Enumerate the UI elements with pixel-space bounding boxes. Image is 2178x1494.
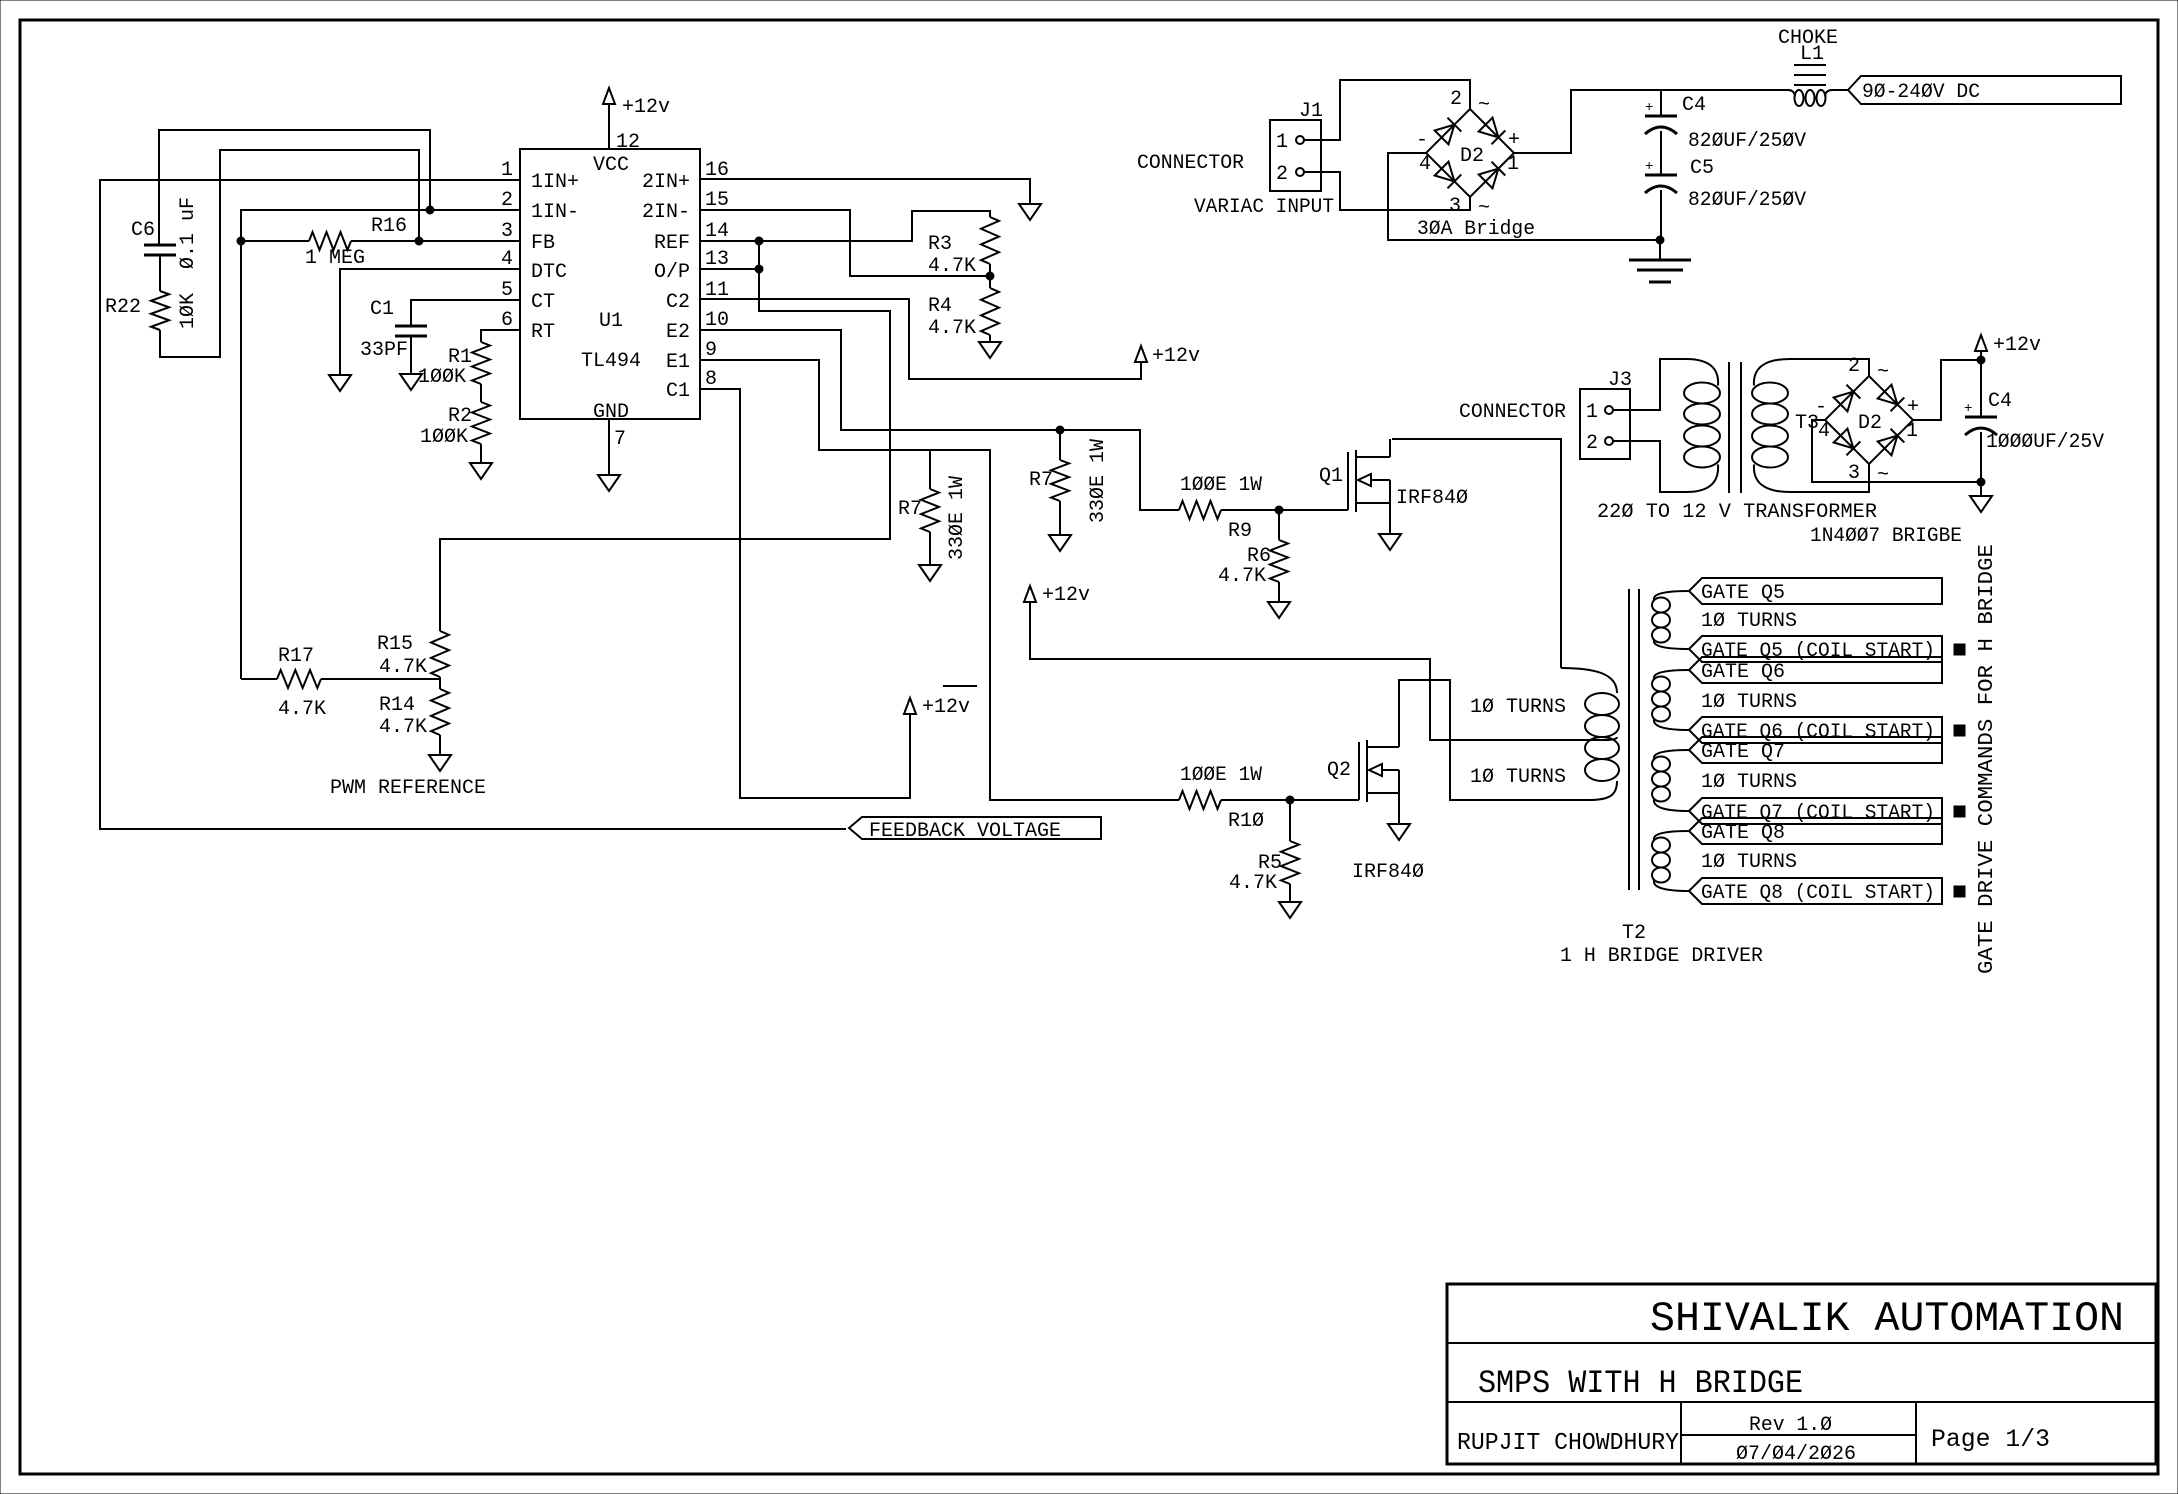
svg-text:1ØK: 1ØK	[177, 293, 200, 329]
svg-text:1ØØE 1W: 1ØØE 1W	[1180, 764, 1262, 787]
svg-text:GND: GND	[593, 401, 629, 424]
svg-text:82ØUF/25ØV: 82ØUF/25ØV	[1688, 130, 1806, 153]
svg-text:REF: REF	[654, 232, 690, 255]
svg-text:GATE Q8 (COIL START): GATE Q8 (COIL START)	[1701, 882, 1935, 905]
svg-text:1ØØØUF/25V: 1ØØØUF/25V	[1986, 431, 2104, 454]
svg-text:C1: C1	[666, 380, 690, 403]
svg-text:1Ø TURNS: 1Ø TURNS	[1470, 696, 1566, 719]
svg-text:R22: R22	[105, 296, 141, 319]
transformer T3 primary	[1684, 359, 1720, 492]
transformer T2 secondary 4	[1652, 831, 1689, 891]
ground DTC	[329, 375, 351, 391]
wire pin8 C1	[700, 389, 910, 798]
title Page 1/3	[1931, 1425, 2050, 1454]
ground R5	[1279, 902, 1301, 918]
svg-text:D2: D2	[1460, 145, 1484, 168]
wire bridge minus to gnd rail	[1388, 153, 1656, 240]
capacitor C5 820UF	[1645, 157, 1806, 240]
ground R6	[1268, 602, 1290, 618]
bridge rectifier D2 1N4007	[1815, 355, 1919, 487]
label 10 TURNS 4	[1701, 851, 1797, 874]
node R7b junction	[1056, 426, 1064, 434]
wire R14 to gnd	[439, 735, 441, 755]
svg-text:IRF84Ø: IRF84Ø	[1352, 861, 1424, 884]
ground Q2 source	[1388, 824, 1410, 840]
svg-text:U1: U1	[599, 310, 623, 333]
svg-text:R7: R7	[898, 498, 922, 521]
svg-text:R9: R9	[1228, 520, 1252, 543]
flag FEEDBACK VOLTAGE	[849, 817, 1101, 843]
svg-text:1ØØE 1W: 1ØØE 1W	[1180, 474, 1262, 497]
title block frame	[1447, 1284, 2156, 1464]
svg-text:3: 3	[1449, 195, 1461, 218]
wire J3 pin2 to T3	[1613, 441, 1686, 492]
svg-text:R3: R3	[928, 233, 952, 256]
wire T3 sec top to bridge	[1790, 359, 1869, 376]
node FB left junction	[237, 237, 245, 245]
title Rev 1.0	[1749, 1414, 1832, 1437]
capacitor C4 1000UF	[1964, 360, 2104, 482]
svg-text:R2: R2	[448, 405, 472, 428]
svg-text:E2: E2	[666, 321, 690, 344]
svg-text:E1: E1	[666, 351, 690, 374]
capacitor C4 820UF	[1645, 90, 1806, 174]
flag GATE Q6 (COIL START)	[1689, 717, 1942, 744]
svg-text:CONNECTOR: CONNECTOR	[1459, 401, 1566, 424]
label 1N4007 BRIGBE	[1810, 525, 1962, 548]
svg-text:R15: R15	[377, 633, 413, 656]
node R7a junction	[929, 450, 931, 451]
flag GATE Q5 (COIL START)	[1689, 636, 1942, 663]
svg-text:FB: FB	[531, 232, 555, 255]
svg-text:C1: C1	[370, 298, 394, 321]
svg-text:2IN+: 2IN+	[642, 171, 690, 194]
svg-text:22Ø TO 12 V TRANSFORMER: 22Ø TO 12 V TRANSFORMER	[1597, 501, 1877, 524]
svg-text:1: 1	[1507, 153, 1519, 176]
svg-text:1ØØK: 1ØØK	[420, 426, 468, 449]
svg-text:GATE Q6: GATE Q6	[1701, 661, 1785, 684]
wire C6 branch top	[159, 130, 430, 245]
transistor Q1 IRF840	[1319, 439, 1468, 534]
svg-text:D2: D2	[1858, 412, 1882, 435]
svg-text:1Ø TURNS: 1Ø TURNS	[1701, 771, 1797, 794]
svg-text:4.7K: 4.7K	[928, 255, 976, 278]
svg-text:Page 1/3: Page 1/3	[1931, 1425, 2050, 1454]
wire REF-O/P tie	[758, 241, 760, 269]
svg-text:2: 2	[1848, 355, 1860, 378]
svg-text:FEEDBACK VOLTAGE: FEEDBACK VOLTAGE	[869, 820, 1061, 843]
wire pin10 E2	[700, 330, 1179, 510]
svg-text:1: 1	[1276, 131, 1288, 154]
svg-text:5: 5	[501, 279, 513, 302]
svg-text:CT: CT	[531, 291, 555, 314]
svg-text:TL494: TL494	[581, 350, 641, 373]
svg-text:1Ø TURNS: 1Ø TURNS	[1701, 691, 1797, 714]
resistor R4 4.7K	[928, 288, 999, 340]
capacitor C1 33PF	[360, 298, 427, 374]
resistor R15 4.7K	[377, 631, 449, 679]
svg-text:15: 15	[705, 189, 729, 212]
wire O/P to divider	[440, 269, 890, 631]
ground Q1 source	[1379, 534, 1401, 550]
power +12v T3 rail	[1975, 334, 2041, 357]
svg-text:GATE DRIVE COMMANDS FOR H BRID: GATE DRIVE COMMANDS FOR H BRIDGE	[1976, 544, 1999, 974]
resistor R2 100K	[420, 402, 490, 449]
ground R4	[979, 342, 1001, 358]
IC U1 TL494 body	[520, 149, 700, 424]
wire +12v to T2 tap	[1030, 602, 1605, 740]
resistor R9 100E 1W	[1179, 474, 1348, 543]
node R10-R5 junction	[1286, 796, 1294, 804]
wire R4 to gnd	[989, 335, 991, 342]
svg-text:13: 13	[705, 248, 729, 271]
flag GATE Q8 (COIL START)	[1689, 878, 1942, 905]
svg-text:VARIAC INPUT: VARIAC INPUT	[1194, 196, 1334, 219]
resistor R3 4.7K	[928, 217, 999, 278]
node coil start dot 2	[1954, 725, 1965, 736]
svg-text:SMPS WITH H BRIDGE: SMPS WITH H BRIDGE	[1478, 1365, 1803, 1402]
svg-text:+12v: +12v	[622, 96, 670, 119]
label VARIAC INPUT	[1194, 196, 1334, 219]
svg-text:1ØØK: 1ØØK	[418, 366, 466, 389]
ground GND pin7	[598, 419, 620, 491]
ground pin16	[1019, 204, 1041, 220]
bridge rectifier D2 30A	[1416, 88, 1520, 220]
label CONNECTOR J3	[1459, 401, 1566, 424]
wire pin6 RT	[481, 330, 520, 342]
svg-text:1 MEG: 1 MEG	[305, 247, 365, 270]
flag GATE Q7 (COIL START)	[1689, 798, 1942, 825]
title SHIVALIK AUTOMATION	[1650, 1295, 2124, 1343]
wire J1 pin2 to bridge	[1304, 172, 1470, 210]
svg-text:9Ø-24ØV DC: 9Ø-24ØV DC	[1862, 81, 1980, 104]
label T2	[1560, 922, 1763, 968]
svg-text:J3: J3	[1608, 369, 1632, 392]
svg-text:R7: R7	[1029, 469, 1053, 492]
wire FB to R17	[240, 241, 242, 679]
svg-text:R4: R4	[928, 295, 952, 318]
wire pin2 1IN-	[241, 210, 520, 239]
svg-text:C5: C5	[1690, 157, 1714, 180]
node C4 1000UF bottom junction	[1977, 478, 1985, 486]
svg-text:RT: RT	[531, 321, 555, 344]
label T3	[1795, 412, 1819, 435]
inductor L1 choke	[1778, 27, 1838, 106]
wire T3 sec bottom to bridge	[1790, 464, 1869, 492]
wire junction to earth	[1659, 240, 1661, 260]
flag 90-240V DC	[1848, 76, 2121, 104]
label CONNECTOR J1	[1137, 152, 1244, 175]
svg-text:4.7K: 4.7K	[379, 716, 427, 739]
svg-text:IRF84Ø: IRF84Ø	[1396, 487, 1468, 510]
svg-text:33PF: 33PF	[360, 339, 408, 362]
wire J3 pin1 to T3	[1613, 359, 1686, 410]
flag GATE Q5	[1689, 578, 1942, 605]
resistor R14 4.7K	[379, 689, 449, 739]
label 10 TURNS primary upper	[1470, 696, 1566, 719]
wire Q1 drain to T2	[1392, 439, 1561, 668]
label 30A Bridge	[1417, 218, 1535, 241]
svg-text:T2: T2	[1622, 922, 1646, 945]
ground C1	[400, 374, 422, 390]
wire R2 to gnd	[480, 444, 482, 463]
wire FB pin3	[419, 240, 520, 242]
svg-text:2: 2	[1450, 88, 1462, 111]
title SMPS WITH H BRIDGE	[1478, 1365, 1803, 1402]
svg-text:1: 1	[1906, 420, 1918, 443]
svg-text:O/P: O/P	[654, 261, 690, 284]
wire R22 to FB node	[160, 150, 419, 357]
svg-text:SHIVALIK AUTOMATION: SHIVALIK AUTOMATION	[1650, 1295, 2124, 1343]
resistor R5 4.7K	[1229, 800, 1299, 902]
pin numbers U1	[501, 131, 729, 451]
svg-text:RUPJIT CHOWDHURY: RUPJIT CHOWDHURY	[1457, 1430, 1679, 1457]
svg-text:4: 4	[501, 248, 513, 271]
node coil start dot 4	[1954, 886, 1965, 897]
wire pin1 1IN+ to feedback	[100, 180, 846, 829]
svg-text:VCC: VCC	[593, 154, 629, 177]
transformer T2 secondary 2	[1652, 670, 1689, 730]
transformer T3 secondary	[1752, 359, 1790, 492]
svg-text:4: 4	[1419, 153, 1431, 176]
svg-text:1N4ØØ7 BRIGBE: 1N4ØØ7 BRIGBE	[1810, 525, 1962, 548]
svg-text:7: 7	[614, 428, 626, 451]
svg-text:-: -	[1416, 129, 1428, 152]
svg-text:8: 8	[705, 368, 717, 391]
svg-text:CONNECTOR: CONNECTOR	[1137, 152, 1244, 175]
node pin2-C6 junction	[426, 206, 434, 214]
svg-text:+: +	[1645, 100, 1653, 116]
power +12v C2	[1135, 345, 1200, 368]
wire J1 pin1 to bridge	[1304, 80, 1470, 140]
node coil start dot 3	[1954, 806, 1965, 817]
svg-text:C4: C4	[1682, 94, 1706, 117]
ground PWM divider	[429, 755, 451, 771]
wire pin4 DTC	[340, 269, 520, 375]
resistor R22	[105, 291, 200, 330]
resistor R10 100E 1W	[1179, 764, 1359, 833]
svg-text:GATE Q8: GATE Q8	[1701, 822, 1785, 845]
flag GATE Q6	[1689, 657, 1942, 684]
svg-text:+12v: +12v	[1152, 345, 1200, 368]
ground R7 upper	[1049, 535, 1071, 551]
ground R7 left	[919, 565, 941, 581]
resistor R17 4.7K	[241, 645, 440, 721]
svg-text:33ØE 1W: 33ØE 1W	[946, 476, 969, 560]
ground bridge2	[1970, 482, 1992, 512]
capacitor C6	[131, 197, 200, 291]
svg-text:4.7K: 4.7K	[379, 656, 427, 679]
wire pin13 O/P	[700, 268, 759, 270]
resistor R1 100K	[418, 342, 490, 389]
svg-text:1 H BRIDGE DRIVER: 1 H BRIDGE DRIVER	[1560, 945, 1763, 968]
transformer T3 core	[1729, 362, 1741, 493]
wire pin9 E1	[700, 360, 1179, 800]
node R3 R4 junction	[986, 264, 994, 288]
flag GATE Q8	[1689, 818, 1942, 845]
node C4C5 bottom junction	[1656, 236, 1664, 244]
svg-text:+: +	[1907, 396, 1919, 419]
label transformer T3 caption	[1597, 501, 1877, 524]
svg-text:82ØUF/25ØV: 82ØUF/25ØV	[1688, 189, 1806, 212]
svg-text:GATE Q5: GATE Q5	[1701, 582, 1785, 605]
node R9-R6 junction	[1275, 506, 1283, 514]
svg-text:+: +	[1964, 401, 1972, 417]
flag GATE Q7	[1689, 737, 1942, 764]
svg-text:C2: C2	[666, 291, 690, 314]
svg-text:~: ~	[1877, 361, 1889, 384]
svg-text:R1Ø: R1Ø	[1228, 810, 1264, 833]
svg-text:-: -	[1815, 396, 1827, 419]
svg-text:GATE Q5 (COIL START): GATE Q5 (COIL START)	[1701, 640, 1935, 663]
connector J3	[1580, 369, 1632, 459]
wire L1 to flag	[1832, 89, 1848, 91]
wire pin11 C2	[700, 299, 1141, 379]
svg-text:1Ø TURNS: 1Ø TURNS	[1701, 851, 1797, 874]
svg-text:1: 1	[501, 159, 513, 182]
resistor R16 1 MEG	[241, 215, 419, 270]
svg-text:6: 6	[501, 309, 513, 332]
svg-text:Ø7/Ø4/2Ø26: Ø7/Ø4/2Ø26	[1736, 1443, 1856, 1466]
label 10 TURNS 3	[1701, 771, 1797, 794]
transistor Q2 IRF840	[1327, 740, 1424, 884]
svg-text:1IN-: 1IN-	[531, 201, 579, 224]
power +12v VCC pin12	[603, 88, 670, 149]
label 10 TURNS 1	[1701, 610, 1797, 633]
transformer T2 secondary 3	[1652, 750, 1689, 811]
svg-text:4.7K: 4.7K	[1229, 872, 1277, 895]
svg-text:Rev 1.Ø: Rev 1.Ø	[1749, 1414, 1832, 1437]
wire Q2 drain to T2	[1399, 680, 1460, 800]
svg-text:Q2: Q2	[1327, 759, 1351, 782]
ground earth 30A bridge	[1629, 260, 1691, 282]
svg-text:1Ø TURNS: 1Ø TURNS	[1470, 766, 1566, 789]
svg-text:4.7K: 4.7K	[928, 317, 976, 340]
svg-text:+12v: +12v	[1993, 334, 2041, 357]
svg-text:R16: R16	[371, 215, 407, 238]
svg-text:+: +	[1508, 129, 1520, 152]
svg-text:J1: J1	[1299, 100, 1323, 123]
svg-text:2: 2	[501, 189, 513, 212]
svg-text:2: 2	[1586, 432, 1598, 455]
wire pin16 2IN+	[700, 179, 1030, 204]
node O/P junction	[755, 265, 763, 273]
svg-text:33ØE 1W: 33ØE 1W	[1087, 439, 1110, 523]
svg-text:C4: C4	[1988, 390, 2012, 413]
svg-text:Q1: Q1	[1319, 465, 1343, 488]
svg-text:Ø.1 uF: Ø.1 uF	[177, 197, 200, 269]
svg-text:3ØA Bridge: 3ØA Bridge	[1417, 218, 1535, 241]
title RUPJIT CHOWDHURY	[1457, 1430, 1679, 1457]
svg-text:+: +	[1645, 159, 1653, 175]
title date	[1736, 1443, 1856, 1466]
svg-text:C6: C6	[131, 219, 155, 242]
svg-text:R14: R14	[379, 694, 415, 717]
svg-text:DTC: DTC	[531, 261, 567, 284]
power +12v-bar	[904, 686, 977, 719]
svg-text:1IN+: 1IN+	[531, 171, 579, 194]
ground R2	[470, 463, 492, 479]
svg-text:L1: L1	[1800, 43, 1824, 66]
transformer T2 primary	[1450, 668, 1619, 800]
svg-text:~: ~	[1478, 197, 1490, 220]
wire pin5 CT	[411, 300, 520, 325]
svg-text:~: ~	[1478, 94, 1490, 117]
resistor R7 330E 1W left	[898, 450, 969, 565]
node +12v C4 junction	[1977, 351, 1985, 364]
label 10 TURNS primary lower	[1470, 766, 1566, 789]
resistor R6 4.7K	[1218, 510, 1288, 602]
svg-text:10: 10	[705, 309, 729, 332]
svg-text:1Ø TURNS: 1Ø TURNS	[1701, 610, 1797, 633]
svg-text:+12v: +12v	[922, 696, 970, 719]
transformer T2 secondary 1	[1652, 591, 1689, 649]
svg-text:2IN-: 2IN-	[642, 201, 690, 224]
svg-text:4: 4	[1818, 420, 1830, 443]
node divider junction	[439, 677, 441, 689]
node REF junction	[755, 237, 763, 245]
wire bridge plus to C4	[1514, 90, 1788, 153]
transformer T2 core	[1629, 589, 1639, 890]
svg-text:1: 1	[1586, 401, 1598, 424]
svg-text:4.7K: 4.7K	[1218, 565, 1266, 588]
power +12v centre tap	[1024, 584, 1090, 607]
wire pin14 REF	[700, 211, 990, 241]
node coil start dot 1	[1954, 644, 1965, 655]
wire bridge2 minus	[1812, 420, 1978, 482]
svg-text:2: 2	[1276, 163, 1288, 186]
svg-text:GATE Q7: GATE Q7	[1701, 741, 1785, 764]
label GATE DRIVE COMMANDS	[1976, 544, 1999, 974]
wire bridge2 plus to +12v	[1913, 360, 1978, 420]
svg-text:~: ~	[1877, 464, 1889, 487]
label PWM REFERENCE	[330, 777, 486, 800]
svg-text:14: 14	[705, 220, 729, 243]
svg-text:PWM REFERENCE: PWM REFERENCE	[330, 777, 486, 800]
svg-text:12: 12	[616, 131, 640, 154]
svg-text:3: 3	[501, 220, 513, 243]
wire R1-R2	[480, 384, 482, 402]
resistor R7 330E 1W upper	[1029, 430, 1110, 535]
svg-text:9: 9	[705, 339, 717, 362]
wire pin15 2IN-	[700, 210, 988, 276]
svg-text:+12v: +12v	[1042, 584, 1090, 607]
node FB right junction	[415, 237, 423, 245]
connector J1	[1270, 100, 1323, 191]
label 10 TURNS 2	[1701, 691, 1797, 714]
svg-text:4.7K: 4.7K	[278, 698, 326, 721]
svg-text:R17: R17	[278, 645, 314, 668]
